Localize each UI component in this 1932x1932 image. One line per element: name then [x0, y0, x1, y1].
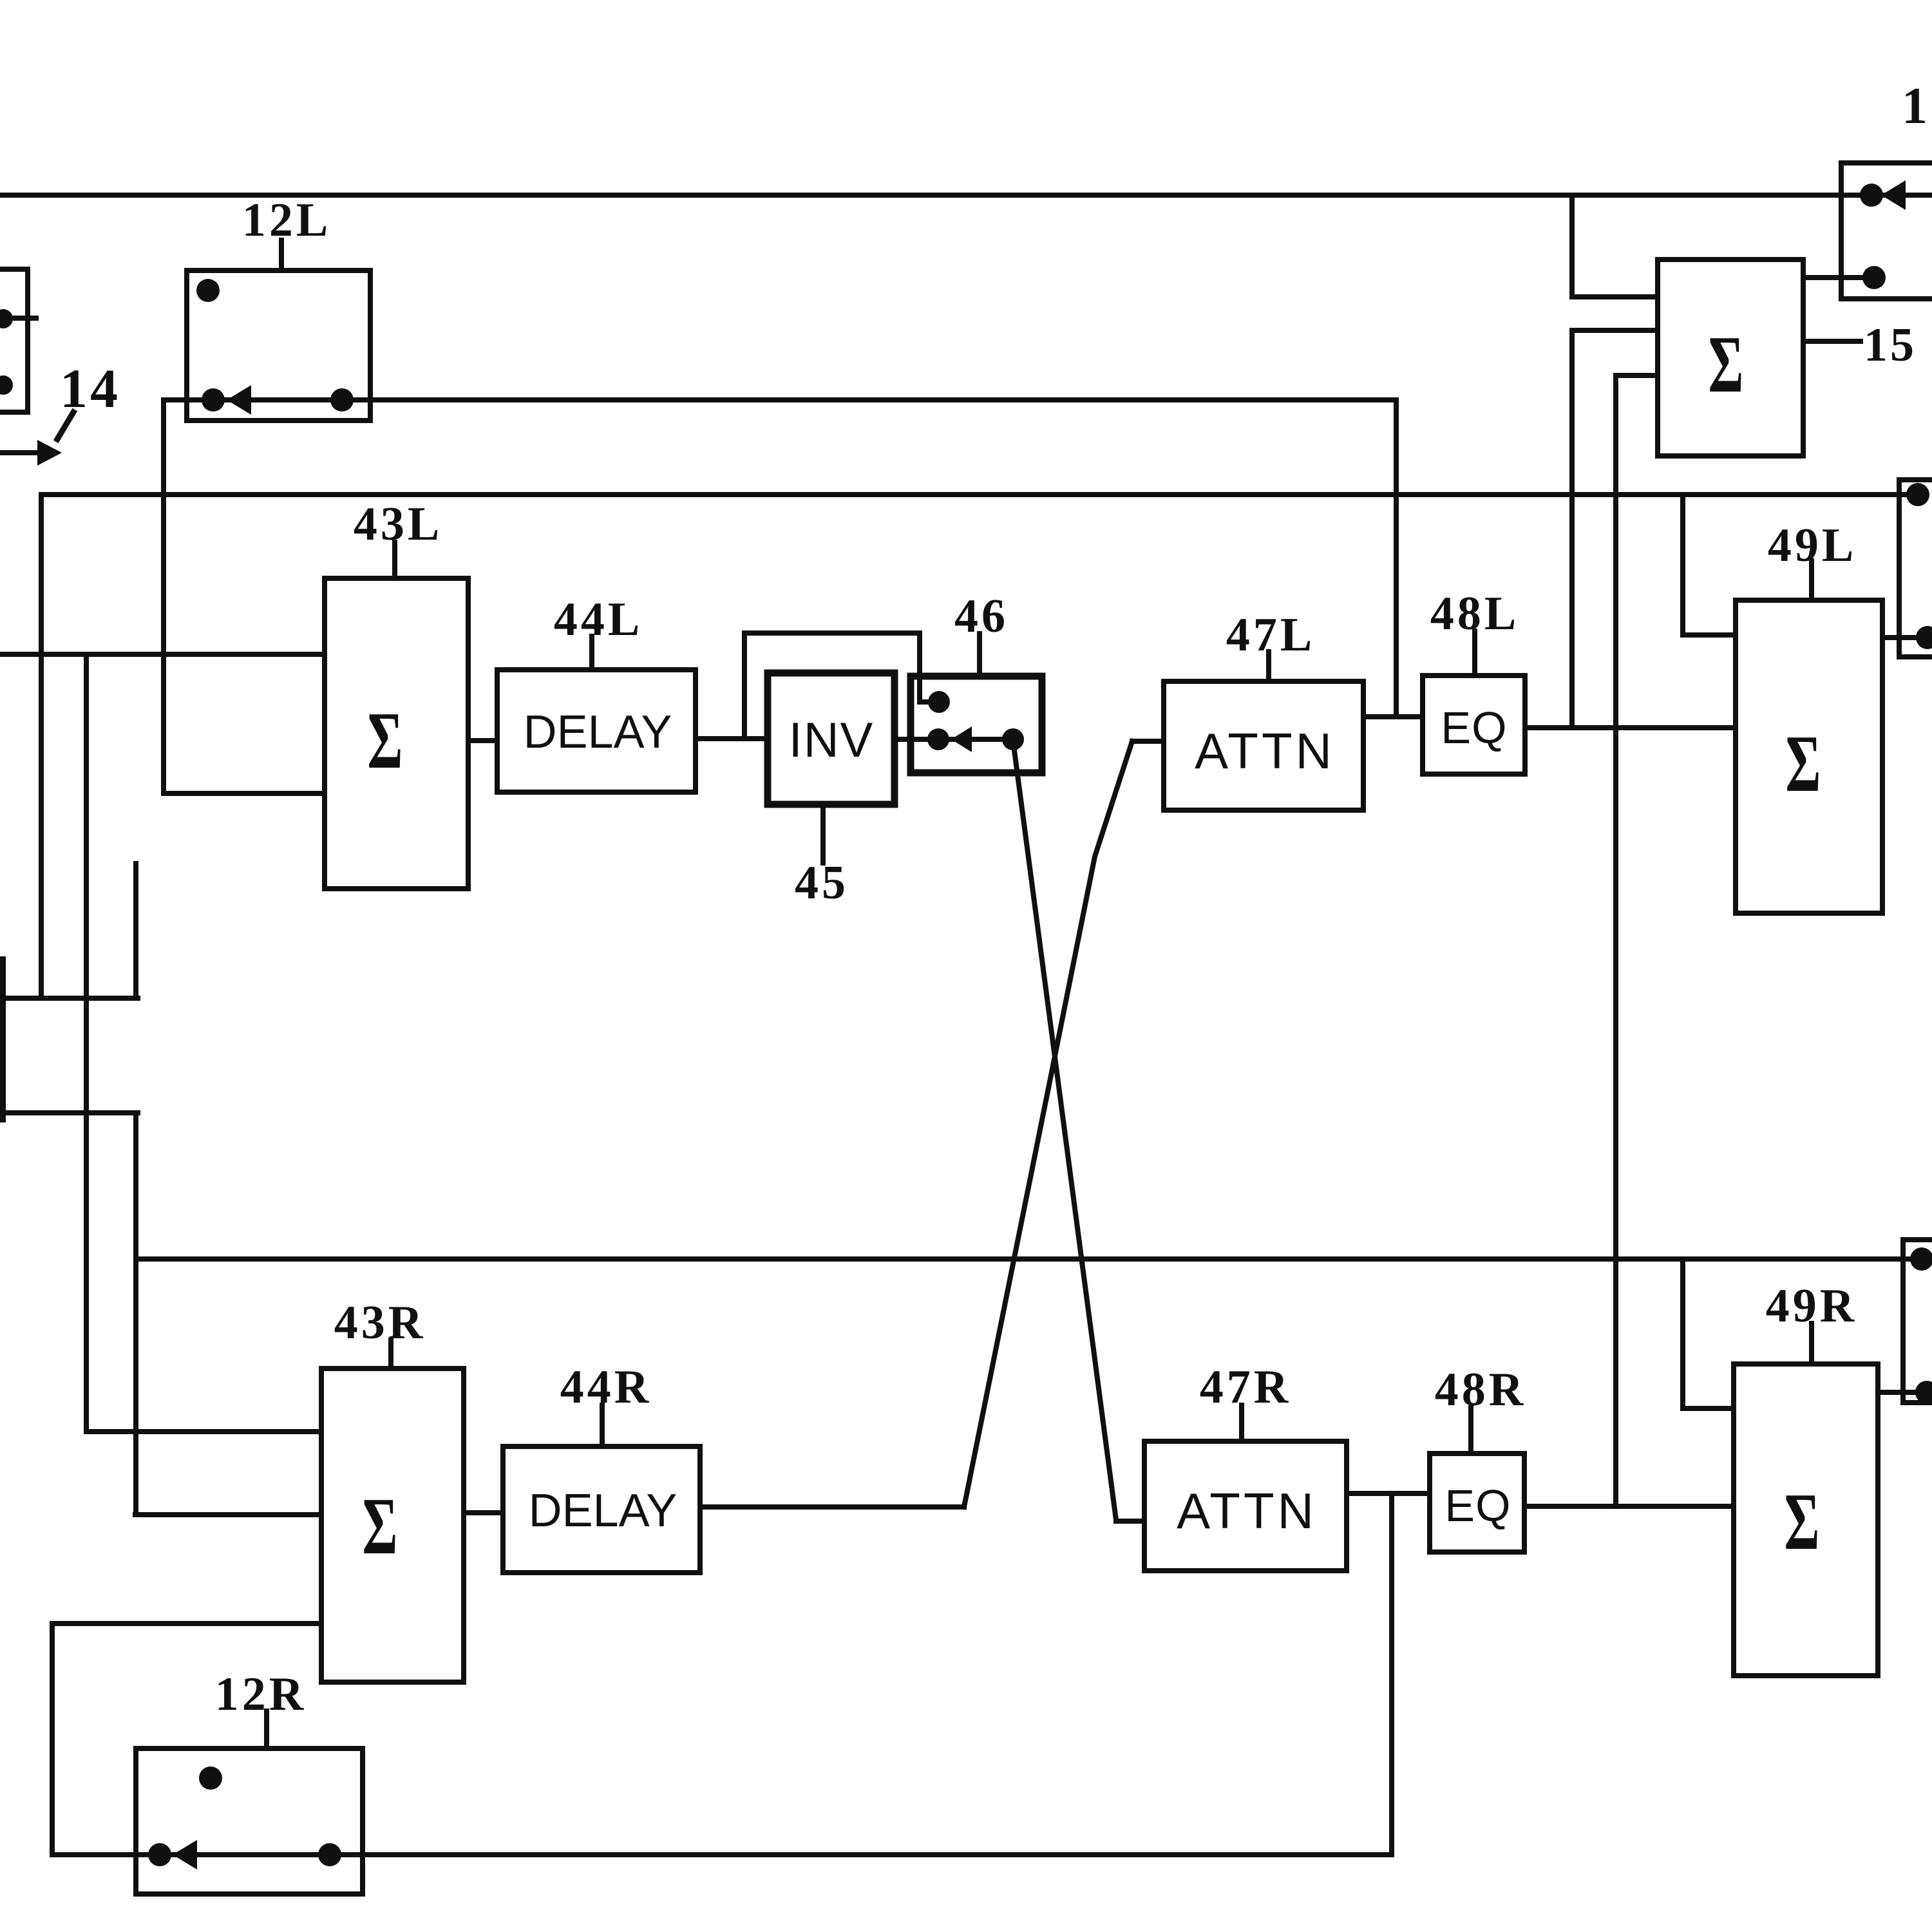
svg-text:12L: 12L [242, 194, 331, 247]
svg-text:Σ: Σ [1709, 320, 1744, 410]
svg-text:ATTN: ATTN [1177, 1482, 1317, 1539]
svg-text:DELAY: DELAY [529, 1485, 677, 1537]
svg-text:44R: 44R [560, 1361, 652, 1414]
svg-text:49R: 49R [1766, 1280, 1857, 1332]
svg-text:46: 46 [954, 590, 1009, 643]
svg-text:48L: 48L [1430, 587, 1519, 640]
svg-text:47R: 47R [1200, 1361, 1291, 1414]
svg-text:DELAY: DELAY [524, 706, 672, 758]
svg-text:49L: 49L [1768, 519, 1857, 572]
svg-text:43R: 43R [334, 1296, 426, 1349]
svg-text:12R: 12R [215, 1668, 307, 1721]
svg-text:EQ: EQ [1441, 703, 1507, 753]
svg-text:47L: 47L [1226, 609, 1315, 661]
svg-text:15: 15 [1864, 319, 1917, 372]
svg-text:44L: 44L [554, 593, 643, 646]
svg-text:Σ: Σ [1785, 1477, 1820, 1567]
svg-text:45: 45 [795, 857, 849, 909]
svg-text:48R: 48R [1435, 1363, 1526, 1416]
svg-text:1: 1 [1902, 78, 1927, 135]
svg-text:Σ: Σ [1786, 719, 1821, 809]
svg-text:INV: INV [789, 713, 875, 768]
svg-text:ATTN: ATTN [1195, 723, 1335, 779]
svg-text:EQ: EQ [1444, 1481, 1511, 1531]
svg-text:14: 14 [60, 357, 120, 419]
svg-text:43L: 43L [354, 498, 442, 551]
svg-text:Σ: Σ [363, 1482, 398, 1571]
svg-text:Σ: Σ [368, 696, 403, 786]
